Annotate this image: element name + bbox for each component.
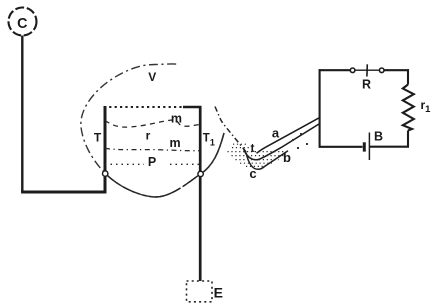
svg-text:t: t bbox=[251, 141, 255, 155]
circuit bottom wire right of battery bbox=[370, 146, 409, 148]
svg-text:R: R bbox=[362, 78, 371, 92]
svg-text:r: r bbox=[146, 129, 151, 143]
junction terminal right bbox=[198, 171, 203, 176]
heater box E dotted bbox=[187, 281, 213, 302]
wire from C down bbox=[21, 36, 23, 193]
svg-text:P: P bbox=[148, 155, 156, 169]
P dotted line bbox=[105, 163, 144, 165]
key plug tick bbox=[366, 64, 368, 76]
circuit top wire right segment bbox=[384, 69, 409, 71]
calorimeter left wall bbox=[104, 106, 107, 193]
thermocouple wire upper bbox=[257, 118, 320, 154]
resistor r1 zigzag bbox=[403, 85, 414, 131]
key terminal right circle bbox=[379, 68, 384, 73]
circuit right vertical top bbox=[407, 69, 409, 84]
svg-text:m: m bbox=[169, 136, 180, 150]
svg-text:E: E bbox=[214, 284, 223, 300]
circuit bottom wire left of battery bbox=[319, 146, 363, 148]
V-tube outer bottom and right arm bbox=[246, 151, 288, 170]
upper m dashed line bbox=[105, 120, 200, 127]
svg-text:V: V bbox=[148, 70, 156, 84]
speckles near wires bbox=[292, 133, 308, 149]
svg-text:a: a bbox=[272, 125, 280, 140]
calorimeter top edge solid right part bbox=[183, 106, 201, 108]
lower m dash line bbox=[105, 148, 200, 150]
key wire between terminals bbox=[355, 69, 380, 71]
key terminal left circle bbox=[350, 68, 355, 73]
thermocouple wire lower bbox=[263, 124, 320, 158]
thermocouple junction bead inner arc bbox=[244, 149, 264, 160]
calorimeter top edge dotted bbox=[104, 106, 184, 108]
svg-text:m: m bbox=[171, 111, 182, 125]
wire bottom horizontal to vessel bbox=[21, 191, 106, 194]
circuit top wire left segment bbox=[319, 69, 351, 71]
junction terminal left bbox=[103, 171, 108, 176]
circuit right vertical bottom bbox=[407, 131, 409, 148]
vessel V bottom arc solid bbox=[105, 173, 201, 197]
svg-text:B: B bbox=[374, 130, 383, 144]
vessel V solid arc right bbox=[201, 133, 225, 174]
circuit left vertical wire bbox=[319, 69, 321, 147]
svg-text:T: T bbox=[94, 130, 102, 144]
vessel V dashed outline bbox=[81, 64, 224, 197]
galvanometer C bbox=[9, 8, 37, 36]
liquid hatch dots in V-tube bbox=[228, 144, 288, 166]
V-tube left arm dash-dot bbox=[215, 107, 247, 154]
svg-text:C: C bbox=[17, 16, 27, 32]
svg-text:b: b bbox=[283, 150, 291, 165]
calorimeter right wall (continues to E) bbox=[199, 106, 202, 281]
battery B long plate bbox=[368, 133, 370, 161]
svg-text:c: c bbox=[249, 166, 256, 181]
battery B short plate bbox=[363, 142, 366, 151]
